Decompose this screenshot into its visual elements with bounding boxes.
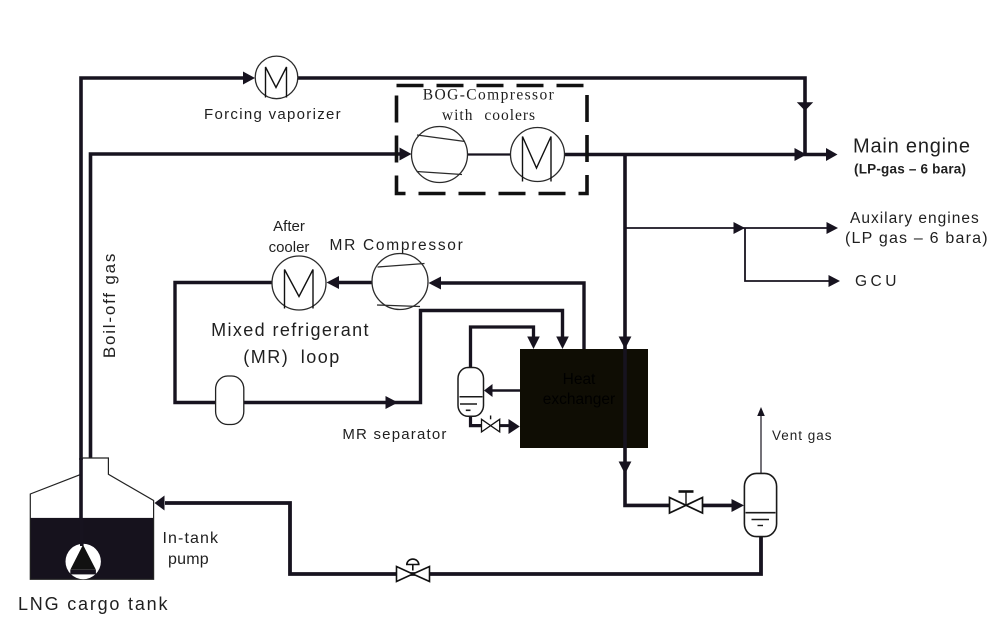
valve: tank return line valve (397, 559, 430, 581)
wire: MR loop left leg, bottom run, and return to heat exchanger (175, 283, 563, 403)
arrow: vent gas up (757, 407, 765, 416)
svg-text:(LP gas – 6 bara): (LP gas – 6 bara) (845, 230, 989, 247)
wire: MR compressor to after cooler (338, 281, 373, 284)
arrow: return into LNG tank (155, 496, 165, 511)
wire: main vertical passing through heat exchanger (623, 349, 627, 448)
svg-text:(LP-gas – 6 bara): (LP-gas – 6 bara) (854, 162, 966, 177)
svg-text:Main engine: Main engine (853, 136, 971, 158)
wire: forcing vaporizer outlet to top-right corner, down to main line (297, 78, 805, 154)
svg-text:pump: pump (168, 551, 209, 568)
wire: MR separator bottom drain to heat exchanger (471, 414, 482, 426)
wire: branch vertical to heat exchanger (623, 155, 627, 349)
in-tank pump (66, 519, 101, 579)
MR loop receiver capsule (216, 376, 244, 425)
arrow: into after cooler (327, 276, 340, 289)
svg-text:with coolers: with coolers (442, 107, 536, 124)
after cooler M circle (272, 256, 326, 310)
wire: heat exchanger drain to vent vessel via valve (625, 349, 670, 505)
BOG compressor symbol (412, 127, 468, 183)
arrow: into BOG compressor (400, 148, 412, 161)
arrow: main line at junction (795, 148, 807, 161)
svg-text:After: After (273, 218, 305, 235)
arrow: to Auxilary engines (827, 222, 839, 234)
wire: vent gas line (760, 416, 762, 473)
arrow: separator loop into heat exchanger top (527, 337, 540, 350)
svg-text:MR separator: MR separator (342, 426, 447, 443)
svg-text:GCU: GCU (855, 273, 900, 290)
svg-text:MR Compressor: MR Compressor (330, 237, 465, 254)
arrow: mid auxiliary branch (734, 222, 746, 234)
wire: vent vessel drain, bottom run, return to LNG tank (165, 503, 761, 574)
svg-text:exchanger: exchanger (543, 391, 615, 408)
svg-text:Boil-off gas: Boil-off gas (100, 252, 119, 358)
arrow: separator drain into heat exchanger (509, 419, 520, 434)
arrow: into forcing vaporizer (243, 72, 255, 85)
BOG cooler M circle (511, 128, 565, 182)
heat exchanger (520, 349, 648, 448)
svg-text:Heat: Heat (563, 371, 596, 388)
wire: heat exchanger outlet up and to MR compressor (440, 283, 584, 349)
svg-text:Auxilary engines: Auxilary engines (850, 210, 980, 227)
svg-text:cooler: cooler (269, 239, 310, 256)
wire: heat exchanger to MR separator inlet (492, 389, 520, 392)
wire: cooler M outlet to Main engine (565, 153, 828, 157)
arrow: branch into heat exchanger top (619, 337, 632, 350)
valve: heat exchanger drain valve (670, 492, 703, 514)
arrow: to GCU (829, 275, 841, 287)
arrow: main line to Main engine (826, 148, 838, 161)
arrow: into MR compressor (429, 277, 442, 290)
svg-text:(MR) loop: (MR) loop (243, 347, 341, 367)
wire: BOG compressor to cooler M (468, 153, 511, 155)
LNG cargo tank (30, 458, 153, 579)
wire: BOG riser B + run to BOG compressor (91, 154, 401, 458)
wire: MR separator top loop to heat exchanger (471, 327, 534, 369)
wire: auxiliary engines branch (625, 227, 827, 229)
MR separator vessel (458, 368, 484, 417)
arrow: into vent vessel (732, 499, 745, 512)
arrow: down into main line junction (797, 102, 813, 111)
wire: GCU branch (745, 228, 829, 281)
svg-text:BOG-Compressor: BOG-Compressor (423, 87, 555, 104)
svg-text:In-tank: In-tank (163, 530, 220, 547)
BOG compressor dashed enclosure (397, 86, 588, 194)
valve: MR separator drain valve (482, 416, 500, 432)
arrow: MR loop bottom run (386, 396, 399, 409)
wire: BOG riser A inside tank down to pump (79, 458, 83, 521)
svg-text:Mixed refrigerant: Mixed refrigerant (211, 320, 370, 340)
svg-text:Forcing vaporizer: Forcing vaporizer (204, 106, 342, 123)
arrow: into MR separator (484, 384, 493, 397)
vent gas vessel (744, 473, 776, 536)
MR compressor symbol (372, 254, 428, 310)
wire: BOG riser A + top run to forcing vaporizer (81, 78, 244, 460)
svg-text:Vent gas: Vent gas (772, 428, 833, 443)
arrow: below heat exchanger pointing down (619, 462, 632, 475)
arrow: MR return into heat exchanger top (556, 337, 569, 350)
forcing vaporizer M circle (255, 56, 298, 99)
svg-text:LNG cargo tank: LNG cargo tank (18, 594, 169, 614)
